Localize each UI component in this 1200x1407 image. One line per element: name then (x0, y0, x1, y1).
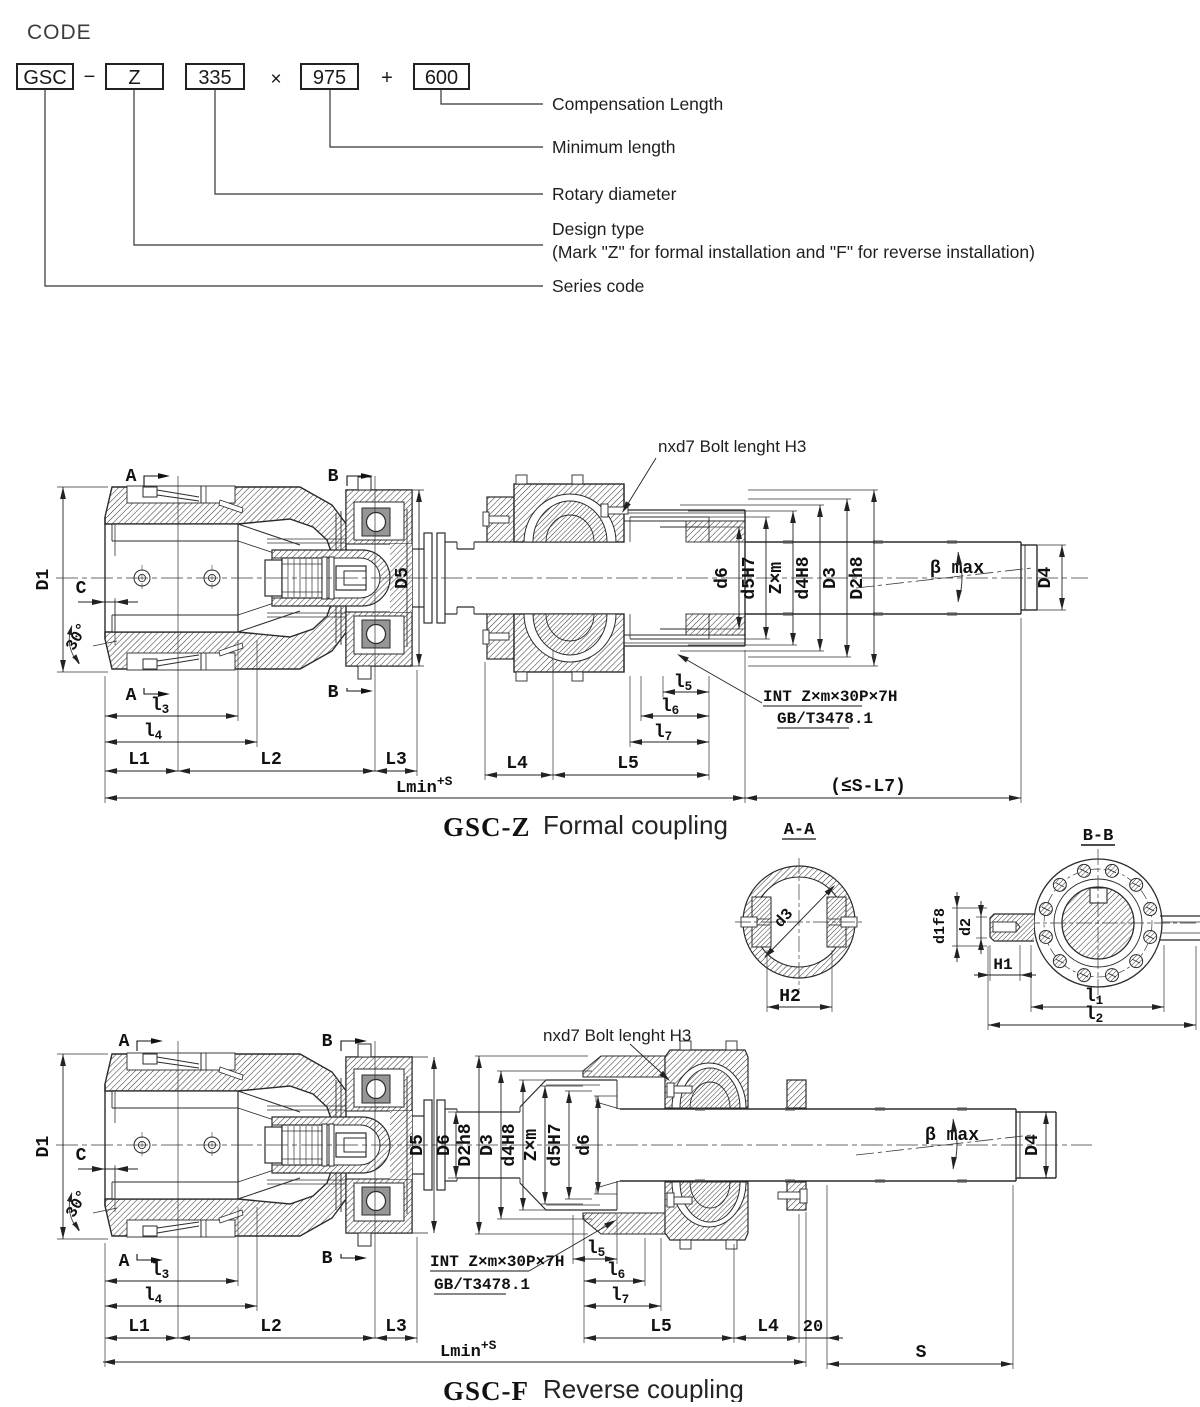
dim S-L7 (745, 797, 1021, 799)
GSC-Z long shaft (745, 541, 1021, 543)
dim d5H7 (705, 516, 770, 518)
GSC-Z hub sleeve lower (624, 645, 745, 647)
section line B-B (374, 476, 376, 771)
collar disc 2 - GSC-F (437, 1100, 445, 1190)
F dim L3 (375, 1337, 417, 1339)
dim L2 (178, 770, 375, 772)
svg-text:B: B (322, 1249, 333, 1269)
svg-text:B: B (328, 467, 339, 487)
F dim D6 (448, 1111, 460, 1113)
svg-text:A: A (126, 686, 137, 706)
F dim l4 (105, 1305, 257, 1307)
GSC-F long shaft (620, 1108, 1016, 1110)
dim d4H8 (680, 504, 824, 506)
bolt hole right - GSC-Z (204, 570, 220, 586)
GSC-F clamp ring lower (787, 1182, 806, 1210)
B-B dim H1 (989, 945, 991, 981)
F dim l6 (584, 1280, 645, 1282)
svg-text:Design type: Design type (552, 219, 644, 239)
svg-text:975: 975 (313, 67, 346, 89)
GSC-F centerline (56, 1144, 1092, 1146)
GSC-Z block bottom bolts (516, 672, 527, 681)
F dim D3 (497, 1070, 592, 1072)
box 600 (414, 64, 469, 89)
collar disc 1 - GSC-F (424, 1100, 432, 1190)
collar disc 2 - GSC-Z (437, 533, 445, 623)
GSC-Z hub right face (744, 510, 746, 646)
svg-text:GB/T3478.1: GB/T3478.1 (434, 1276, 530, 1294)
svg-text:d6: d6 (713, 567, 733, 589)
svg-text:D5: D5 (393, 567, 413, 589)
svg-text:20: 20 (803, 1318, 823, 1337)
svg-text:B-B: B-B (1083, 827, 1114, 846)
svg-text:L4: L4 (757, 1317, 779, 1337)
B-B outer circle (1034, 859, 1162, 987)
F dim L4 (734, 1337, 799, 1339)
dim Zxm (688, 510, 797, 512)
svg-text:L3: L3 (385, 750, 407, 770)
bell left face - GSC-F (104, 1084, 106, 1206)
dim l3 (105, 715, 238, 717)
svg-text:CODE: CODE (27, 21, 92, 44)
GSC-F bore cone lines (596, 1102, 620, 1109)
yoke C-band - GSC-Z (272, 550, 390, 606)
GSC-Z shaft surface ticks (783, 540, 793, 542)
A-A centerlines (735, 921, 863, 923)
svg-text:GSC-Z: GSC-Z (443, 812, 531, 842)
bearing window lower - GSC-F (354, 1183, 404, 1221)
svg-text:D4: D4 (1023, 1134, 1043, 1156)
GSC-F bearing block lower (665, 1182, 748, 1240)
F dim L1 (105, 1337, 178, 1339)
dim L3 (375, 770, 417, 772)
bore cavity - GSC-Z (112, 524, 238, 632)
svg-text:GSC-F: GSC-F (443, 1376, 529, 1402)
flange plate - GSC-Z (346, 490, 412, 666)
yoke C-band - GSC-F (272, 1117, 390, 1173)
svg-text:(≤S-L7): (≤S-L7) (830, 777, 906, 797)
F extension lines bottom (104, 1243, 106, 1367)
spline nut - GSC-F (336, 1133, 366, 1157)
GSC-Z bearing block lower (514, 614, 624, 672)
svg-text:INT Z×m×30P×7H: INT Z×m×30P×7H (763, 688, 897, 706)
svg-text:Z×m: Z×m (767, 562, 787, 595)
bolt hole left - GSC-F (134, 1137, 150, 1153)
GSC-Z middle shaft pieces (445, 541, 457, 543)
svg-text:L5: L5 (617, 754, 639, 774)
GSC-Z hub sleeve upper (624, 509, 745, 511)
A-A key block left (752, 897, 771, 947)
dim D3 (748, 498, 851, 500)
svg-text:D3: D3 (478, 1134, 498, 1156)
GSC-F shaft after collars (445, 1108, 457, 1110)
svg-text:C: C (76, 1146, 87, 1166)
svg-text:Formal coupling: Formal coupling (543, 810, 728, 840)
B-B dim l2 (987, 946, 989, 1030)
bolt hole right - GSC-F (204, 1137, 220, 1153)
spline shaft assembly - GSC-F (265, 1127, 282, 1163)
svg-text:d2: d2 (958, 918, 975, 936)
F section line B-B (374, 1041, 376, 1338)
svg-text:L2: L2 (260, 1317, 282, 1337)
GSC-F tilted axis for beta (856, 1135, 1032, 1155)
F dim d4H8 (519, 1079, 546, 1081)
svg-text:H1: H1 (993, 956, 1012, 974)
extension lines bottom GSC-Z (104, 676, 106, 803)
F dim l5 (573, 1258, 617, 1260)
F dim D1 (57, 1053, 108, 1055)
svg-text:d5H7: d5H7 (546, 1123, 566, 1166)
GSC-Z hub clamp ring lower (487, 614, 514, 659)
GSC-Z hub clamp ring upper (487, 497, 514, 542)
svg-text:L3: L3 (385, 1317, 407, 1337)
box 335 (186, 64, 244, 89)
A-A key block right (827, 897, 846, 947)
svg-text:+: + (381, 67, 393, 89)
B-B shaft stub left (990, 914, 1034, 941)
box GSC (17, 64, 73, 89)
svg-text:D2h8: D2h8 (848, 556, 868, 599)
bolt hole left - GSC-Z (134, 570, 150, 586)
GSC-F sleeve band upper (583, 1056, 665, 1077)
B-B shaft disc hatched (1062, 887, 1134, 959)
B-B dim d1f8 (952, 907, 987, 909)
dim L5 (553, 774, 709, 776)
GSC-F hub left bolts (667, 1083, 674, 1097)
F dim L2 (178, 1337, 375, 1339)
B-B dim d2 (976, 916, 987, 918)
svg-text:B: B (328, 683, 339, 703)
svg-text:−: − (84, 66, 96, 88)
F dim L5 (584, 1337, 734, 1339)
screw recess lower - GSC-F (127, 1220, 235, 1237)
dim D4 (1037, 544, 1066, 546)
GSC-F clamp ring upper (787, 1080, 806, 1108)
svg-text:B: B (322, 1032, 333, 1052)
bell housing outer shell lower - GSC-F (105, 1166, 352, 1236)
bore cavity - GSC-F (112, 1091, 238, 1199)
section line A-A (177, 476, 179, 771)
F dim l3 (105, 1280, 238, 1282)
F dim D2h8 (475, 1055, 588, 1057)
sleeve lines above yoke - GSC-Z (267, 538, 352, 540)
dim D5 (412, 489, 424, 491)
svg-text:D3: D3 (821, 567, 841, 589)
GSC-F bearing block upper (665, 1050, 748, 1108)
svg-text:C: C (76, 579, 87, 599)
screw recess upper - GSC-F (127, 1053, 235, 1070)
svg-text:Series code: Series code (552, 276, 644, 296)
B-B keyway (1090, 888, 1107, 903)
dim Lmin+S (105, 797, 745, 799)
bearing window upper - GSC-F (354, 1069, 404, 1107)
leader line for Design type (134, 89, 543, 245)
svg-text:L5: L5 (650, 1317, 672, 1337)
svg-text:Z: Z (128, 67, 140, 89)
screw recess upper - GSC-Z (127, 486, 235, 503)
svg-text:A: A (119, 1252, 130, 1272)
collar disc 1 - GSC-Z (424, 533, 432, 623)
flange plate - GSC-F (346, 1057, 412, 1233)
GSC-F cone to spline (519, 1107, 521, 1112)
F dim S (827, 1363, 1013, 1365)
svg-text:A: A (126, 467, 137, 487)
svg-text:L4: L4 (506, 754, 528, 774)
svg-text:Compensation Length: Compensation Length (552, 94, 723, 114)
svg-text:L1: L1 (128, 1317, 150, 1337)
A-A screw left (741, 917, 757, 927)
GSC-Z block top bolts (516, 475, 527, 484)
B-B dim l1 (1030, 945, 1032, 1012)
dim D2h8 (748, 489, 878, 491)
svg-text:d4H8: d4H8 (500, 1123, 520, 1166)
svg-text:nxd7 Bolt lenght H3: nxd7 Bolt lenght H3 (658, 437, 806, 456)
GSC-Z bearing block upper (514, 484, 624, 542)
GSC-F sleeve band lower (583, 1213, 665, 1234)
A-A dim H2 (766, 950, 768, 1012)
F section line A-A (177, 1041, 179, 1338)
leader line for Rotary diameter (215, 89, 543, 194)
B-B flange bore circle (1054, 879, 1142, 967)
sleeve lines above yoke - GSC-F (267, 1105, 352, 1107)
svg-text:GB/T3478.1: GB/T3478.1 (777, 710, 873, 728)
screw recess lower - GSC-Z (127, 653, 235, 670)
B-B bolt circle centerline (1044, 869, 1152, 977)
leader line for Minimum length (330, 89, 543, 147)
dim D1 (57, 486, 108, 488)
svg-text:L1: L1 (128, 750, 150, 770)
bearing window lower - GSC-Z (354, 616, 404, 654)
F dim D4 (1050, 1111, 1056, 1113)
svg-text:d6: d6 (575, 1134, 595, 1156)
flange bolts - GSC-F (358, 1044, 371, 1057)
svg-text:D6: D6 (435, 1134, 455, 1156)
bell left face - GSC-Z (104, 517, 106, 639)
F dim Zxm (541, 1085, 583, 1087)
A-A screw right (841, 917, 857, 927)
bell housing outer shell upper - GSC-F (105, 1054, 352, 1124)
F dim d5H7 (565, 1090, 592, 1092)
svg-text:335: 335 (198, 67, 231, 89)
svg-text:H2: H2 (779, 987, 801, 1007)
spline rings - GSC-F (322, 1124, 327, 1166)
dim l4 (105, 741, 257, 743)
svg-text:D1: D1 (34, 1136, 54, 1158)
GSC-F shaft end cap (1016, 1111, 1056, 1113)
svg-text:A-A: A-A (784, 821, 815, 840)
svg-text:d4H8: d4H8 (794, 556, 814, 599)
F dim l7 (584, 1305, 661, 1307)
svg-text:nxd7 Bolt lenght H3: nxd7 Bolt lenght H3 (543, 1026, 691, 1045)
bell-flange joint lines - GSC-Z (335, 513, 337, 643)
svg-text:D2h8: D2h8 (456, 1123, 476, 1166)
B-B right edge mating shaft (1160, 915, 1200, 917)
svg-text:D1: D1 (34, 569, 54, 591)
bell-flange joint lines - GSC-F (335, 1080, 337, 1210)
bore cone lines - GSC-F (238, 1091, 300, 1112)
svg-text:d1f8: d1f8 (932, 908, 949, 944)
svg-text:S: S (916, 1343, 927, 1363)
svg-text:A: A (119, 1032, 130, 1052)
dim l6 (641, 715, 709, 717)
bearing window upper - GSC-Z (354, 502, 404, 540)
dim L1 (105, 770, 178, 772)
svg-text:Minimum length: Minimum length (552, 137, 676, 157)
spline nut - GSC-Z (336, 566, 366, 590)
A-A outer ring (743, 866, 855, 978)
spline rings - GSC-Z (322, 557, 327, 599)
svg-text:Rotary diameter: Rotary diameter (552, 184, 677, 204)
F dim Lmin+S (103, 1361, 806, 1363)
flange bolts - GSC-Z (358, 477, 371, 490)
svg-text:Z×m: Z×m (522, 1129, 542, 1162)
GSC-Z internal spline bore lines (630, 516, 709, 518)
shaft stub after flange - GSC-F (412, 1115, 424, 1117)
F dim d6 (594, 1095, 617, 1097)
B-B centerlines (1024, 922, 1198, 924)
svg-text:D4: D4 (1036, 567, 1056, 589)
F dim D5 (412, 1056, 428, 1058)
svg-text:L2: L2 (260, 750, 282, 770)
dim l7 (630, 741, 709, 743)
bell housing outer shell lower - GSC-Z (105, 599, 352, 669)
GSC-F block top bolts (680, 1041, 691, 1050)
bore cone lines - GSC-Z (238, 524, 300, 545)
shaft stub after flange - GSC-Z (412, 548, 424, 550)
A-A d3 diagonal dim (766, 887, 833, 956)
B-B bolts (1144, 930, 1157, 943)
bell housing outer shell upper - GSC-Z (105, 487, 352, 557)
svg-text:600: 600 (425, 67, 458, 89)
svg-text:×: × (270, 69, 281, 90)
svg-text:GSC: GSC (23, 67, 66, 89)
dim L4 (485, 774, 553, 776)
GSC-Z tilted axis for beta (856, 568, 1032, 588)
box 975 (301, 64, 358, 89)
GSC-Z centerline (56, 577, 1088, 579)
F dim 20 (783, 1337, 843, 1339)
GSC-F shaft surface ticks (695, 1107, 705, 1109)
svg-text:(Mark "Z" for formal installat: (Mark "Z" for formal installation and "F… (552, 242, 1035, 262)
svg-text:Reverse coupling: Reverse coupling (543, 1374, 744, 1402)
GSC-Z shaft end cap (1021, 544, 1037, 546)
GSC-F male spline (546, 1079, 617, 1081)
leader line for Series code (45, 89, 543, 286)
svg-text:D5: D5 (408, 1134, 428, 1156)
GSC-Z nxd7 bolt (601, 504, 608, 517)
spline shaft assembly - GSC-Z (265, 560, 282, 596)
dim d6 vertical (700, 526, 743, 528)
dim l5 (663, 691, 709, 693)
svg-text:d5H7: d5H7 (740, 556, 760, 599)
leader line for Compensation Length (441, 89, 543, 104)
GSC-F ring bolt lower (800, 1189, 807, 1203)
box Z (106, 64, 163, 89)
